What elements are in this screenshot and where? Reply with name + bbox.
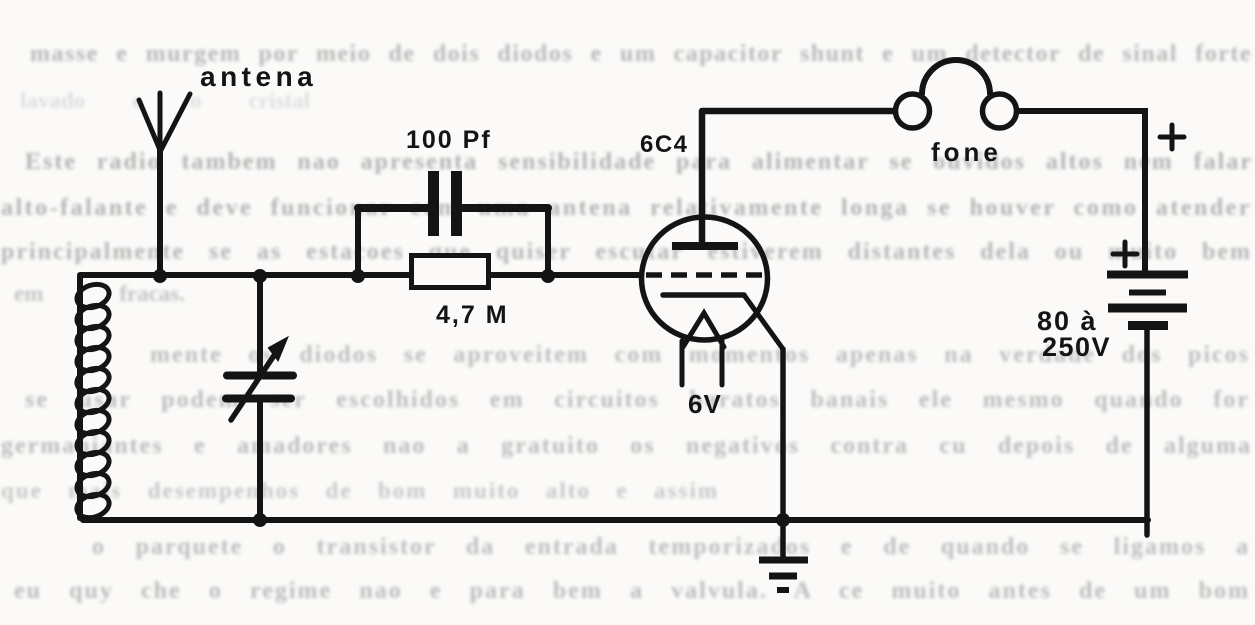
inductor L1 (coil) bbox=[74, 277, 112, 522]
grid (dashed) bbox=[646, 272, 762, 278]
svg-text:250V: 250V bbox=[1042, 332, 1111, 362]
battery B1 80-250V bbox=[1107, 275, 1188, 326]
svg-text:fone: fone bbox=[931, 137, 1002, 167]
heater lead left bbox=[680, 341, 685, 385]
tube envelope circle bbox=[642, 217, 768, 340]
wire: plate to fone (top right horizontal) bbox=[702, 108, 893, 115]
bleed-through text line 3 bbox=[25, 149, 1253, 176]
plus sign (top, right of wire) bbox=[1160, 125, 1184, 149]
node: RC right junction bbox=[541, 269, 555, 283]
node: variable capacitor top junction bbox=[253, 269, 267, 283]
bleed-through text line 1 bbox=[30, 41, 1252, 68]
plus sign (above battery) bbox=[1113, 242, 1137, 266]
bleed-through text line 11 bbox=[92, 534, 1250, 561]
resistor R1 4.7M body bbox=[412, 256, 489, 288]
wire: grid bus (top horizontal net) bbox=[80, 272, 641, 278]
cathode lead diagonal bbox=[744, 295, 783, 349]
anode (plate) bar bbox=[672, 242, 738, 250]
node: cathode bottom junction bbox=[776, 513, 790, 527]
capacitor C1 100pF plates bbox=[434, 171, 457, 236]
bleed-through text line 7 bbox=[150, 342, 1250, 369]
svg-text:6V: 6V bbox=[688, 389, 722, 419]
headphone (fone) headband arc bbox=[922, 60, 990, 94]
svg-text:6C4: 6C4 bbox=[640, 131, 689, 158]
cathode lead vertical bbox=[780, 349, 786, 520]
svg-text:100 Pf: 100 Pf bbox=[406, 126, 492, 154]
antenna bbox=[139, 93, 190, 275]
bleed-through text line 9 bbox=[1, 433, 1252, 460]
bleed-through text line 10 bbox=[1, 478, 719, 504]
heater lead right bbox=[720, 341, 725, 385]
bleed-through text line 2 bbox=[20, 88, 310, 114]
wire: bottom ground bus bbox=[83, 517, 1148, 523]
bleed-through text line 4 bbox=[1, 195, 1252, 222]
node: variable capacitor bottom junction bbox=[253, 513, 267, 527]
svg-text:4,7 M: 4,7 M bbox=[436, 301, 509, 329]
ground symbol bbox=[759, 520, 808, 590]
svg-text:antena: antena bbox=[200, 61, 317, 92]
wire: RC parallel branch risers and top link bbox=[358, 208, 548, 275]
headphone (fone) earpiece right bbox=[983, 94, 1017, 128]
cathode bar bbox=[663, 292, 744, 298]
anode lead to top bbox=[699, 112, 706, 244]
wire: battery negative to bottom bus bbox=[1144, 330, 1150, 535]
bleed-through text line 6 bbox=[14, 281, 185, 307]
node: antenna junction bbox=[153, 269, 167, 283]
bleed-through text line 12 bbox=[14, 578, 1250, 605]
bleed-through text line 8 bbox=[25, 387, 1250, 414]
heater filament V bbox=[683, 313, 724, 347]
wire: fone to battery (right) bbox=[1019, 111, 1145, 270]
variable capacitor CV bbox=[226, 275, 293, 520]
headphone (fone) earpiece left bbox=[896, 94, 930, 128]
bleed-through text line 5 bbox=[1, 239, 1252, 266]
node: RC left junction bbox=[351, 269, 365, 283]
tube V1 6C4 bbox=[642, 112, 784, 520]
